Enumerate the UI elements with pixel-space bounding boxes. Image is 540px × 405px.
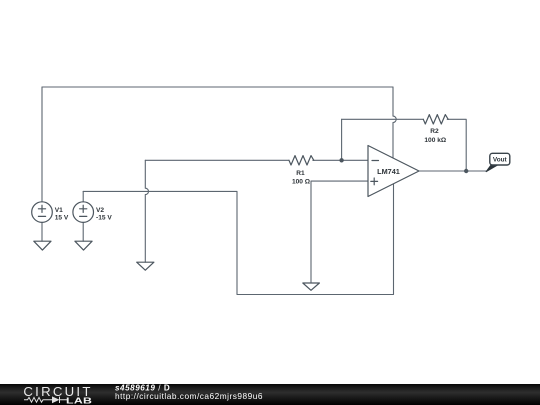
svg-text:100 kΩ: 100 kΩ	[424, 137, 447, 144]
wire top rail V+	[42, 86, 393, 88]
voltage source V1 circle	[32, 202, 53, 223]
ground noninverting input	[303, 283, 320, 290]
wire feedback top to R2	[342, 118, 424, 120]
ground below V2	[75, 241, 92, 250]
flag box Vout	[490, 153, 510, 165]
wire V2 top stem	[82, 191, 84, 201]
junction node at inverting input	[339, 158, 343, 162]
resistor R1	[289, 156, 314, 165]
op-amp U1 triangle	[368, 146, 419, 197]
svg-text:V2: V2	[96, 207, 104, 214]
wire V1 stem top	[41, 87, 43, 202]
wire noninverting input	[311, 181, 368, 283]
V1 minus symbol	[38, 215, 45, 217]
op-amp plus input symbol	[371, 178, 378, 185]
wire R1 ground leg with hop	[145, 160, 148, 262]
svg-text:Vout: Vout	[493, 157, 508, 164]
wire V2 negative rail	[83, 184, 393, 294]
footer bar	[0, 384, 540, 405]
voltage source V2 circle	[73, 202, 94, 223]
wire feedback left leg	[341, 119, 343, 160]
junction node at output	[464, 169, 468, 173]
flag pointer Vout	[486, 165, 498, 172]
V2 minus symbol	[80, 215, 87, 217]
resistor R2	[423, 115, 448, 124]
wire V1 bottom stem	[41, 222, 43, 241]
wire R1 left	[145, 159, 289, 161]
wire V2 bottom stem	[82, 222, 84, 241]
ground mid (R1 leg)	[137, 262, 154, 270]
svg-text:15 V: 15 V	[55, 215, 69, 222]
svg-text:100 Ω: 100 Ω	[292, 179, 311, 186]
logo diode triangle	[52, 396, 60, 403]
wire V+ supply with hop	[393, 87, 396, 158]
wire R1 right to op-amp inverting input	[313, 159, 368, 161]
svg-text:V1: V1	[55, 207, 63, 214]
ground below V1	[34, 241, 51, 250]
V1 plus symbol	[38, 205, 45, 212]
logo resistor-diode line	[24, 397, 67, 403]
wire output	[419, 170, 487, 172]
svg-text:R2: R2	[430, 128, 439, 135]
op-amp minus input symbol	[372, 160, 379, 162]
svg-text:http://circuitlab.com/ca62mjrs: http://circuitlab.com/ca62mjrs989u6	[115, 391, 263, 401]
V2 plus symbol	[80, 205, 87, 212]
svg-text:R1: R1	[296, 170, 305, 177]
svg-text:LAB: LAB	[66, 396, 92, 405]
svg-text:-15 V: -15 V	[96, 215, 112, 222]
wire R2 right leg	[447, 119, 466, 171]
svg-text:LM741: LM741	[377, 167, 400, 176]
